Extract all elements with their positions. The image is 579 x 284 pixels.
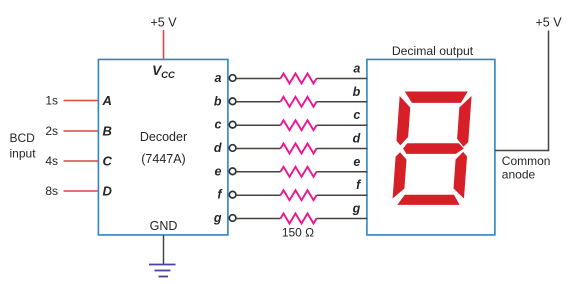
wire R6 to display segment f	[317, 194, 368, 196]
svg-text:GND: GND	[150, 219, 178, 233]
svg-text:e: e	[215, 164, 222, 178]
ground	[149, 265, 176, 277]
svg-text:150 Ω: 150 Ω	[282, 226, 314, 240]
svg-text:BCD: BCD	[10, 131, 36, 145]
decoder U1 box (7447A)	[98, 59, 228, 235]
wire R7 to display segment g	[317, 218, 368, 220]
svg-text:b: b	[353, 85, 361, 99]
output bubble pin g	[229, 215, 236, 222]
svg-text:D: D	[103, 184, 113, 199]
wire bubble e to R5	[236, 171, 281, 173]
svg-text:b: b	[214, 94, 222, 108]
svg-text:anode: anode	[502, 168, 536, 182]
segment e	[393, 152, 407, 198]
svg-text:+5 V: +5 V	[150, 16, 177, 30]
ground bar 1	[149, 264, 176, 266]
output bubble pin a	[229, 75, 236, 82]
wires: resistors to display	[317, 79, 368, 219]
ground bar 3	[159, 276, 169, 278]
wire bubble b to R2	[236, 101, 281, 103]
svg-text:a: a	[353, 62, 360, 76]
output bubble pin c	[229, 121, 236, 128]
wire bubble c to R3	[236, 124, 281, 126]
wire input A	[64, 100, 99, 102]
resistor R4 (row d)	[281, 144, 317, 154]
resistor R5 (row e)	[281, 167, 317, 177]
wire +5V to Vcc	[163, 30, 165, 59]
svg-text:1s: 1s	[45, 94, 58, 108]
resistor R1 (row a)	[281, 74, 317, 84]
wire +5V (right)	[548, 31, 550, 152]
inverter output bubbles	[229, 75, 236, 222]
svg-text:Common: Common	[502, 154, 551, 168]
svg-text:+5 V: +5 V	[535, 16, 562, 30]
7-segment digit DS1	[392, 92, 472, 205]
svg-text:4s: 4s	[45, 154, 58, 168]
ground bar 2	[155, 270, 171, 272]
wire R3 to display segment c	[317, 124, 368, 126]
wire input D	[64, 190, 99, 192]
svg-text:c: c	[215, 118, 222, 132]
svg-text:g: g	[352, 202, 361, 216]
resistor R3 (row c)	[281, 120, 317, 130]
svg-text:8s: 8s	[45, 184, 58, 198]
svg-text:Decimal output: Decimal output	[392, 44, 474, 58]
wire bubble a to R1	[236, 78, 281, 80]
segment b	[457, 96, 472, 147]
segment g	[403, 143, 464, 154]
segment f	[396, 96, 411, 145]
output bubble pin e	[229, 168, 236, 175]
wire R5 to display segment e	[317, 171, 368, 173]
output bubble pin d	[229, 145, 236, 152]
wire bubble f to R6	[236, 194, 281, 196]
svg-text:B: B	[103, 124, 112, 139]
wire bubble g to R7	[236, 218, 281, 220]
svg-text:a: a	[215, 71, 222, 85]
wire R1 to display segment a	[317, 78, 368, 80]
wire R2 to display segment b	[317, 101, 368, 103]
svg-text:C: C	[103, 154, 113, 169]
segment d	[397, 195, 460, 205]
svg-text:e: e	[353, 155, 360, 169]
svg-text:d: d	[214, 141, 222, 155]
svg-text:g: g	[213, 211, 222, 225]
wire common anode	[495, 150, 549, 152]
svg-text:c: c	[353, 108, 360, 122]
segment a	[404, 92, 468, 103]
wire input B	[64, 130, 99, 132]
output bubble pin b	[229, 98, 236, 105]
display box (7-segment, decimal output)	[367, 59, 495, 235]
svg-text:Decoder: Decoder	[140, 130, 187, 144]
wire R4 to display segment d	[317, 148, 368, 150]
wire bubble d to R4	[236, 148, 281, 150]
resistor R6 (row f)	[281, 190, 317, 200]
svg-text:(7447A): (7447A)	[141, 152, 185, 166]
svg-text:2s: 2s	[45, 124, 58, 138]
svg-text:A: A	[102, 93, 112, 108]
svg-text:d: d	[353, 132, 361, 146]
resistor R2 (row b)	[281, 97, 317, 107]
output bubble pin f	[229, 191, 236, 198]
wire GND stem	[163, 235, 165, 265]
resistors 150 ohm bank	[281, 74, 317, 224]
svg-text:input: input	[10, 147, 37, 161]
wires: decoder outputs to resistors	[236, 79, 281, 219]
resistor R7 (row g)	[281, 214, 317, 224]
wire input C	[64, 160, 99, 162]
segment c	[453, 152, 468, 199]
